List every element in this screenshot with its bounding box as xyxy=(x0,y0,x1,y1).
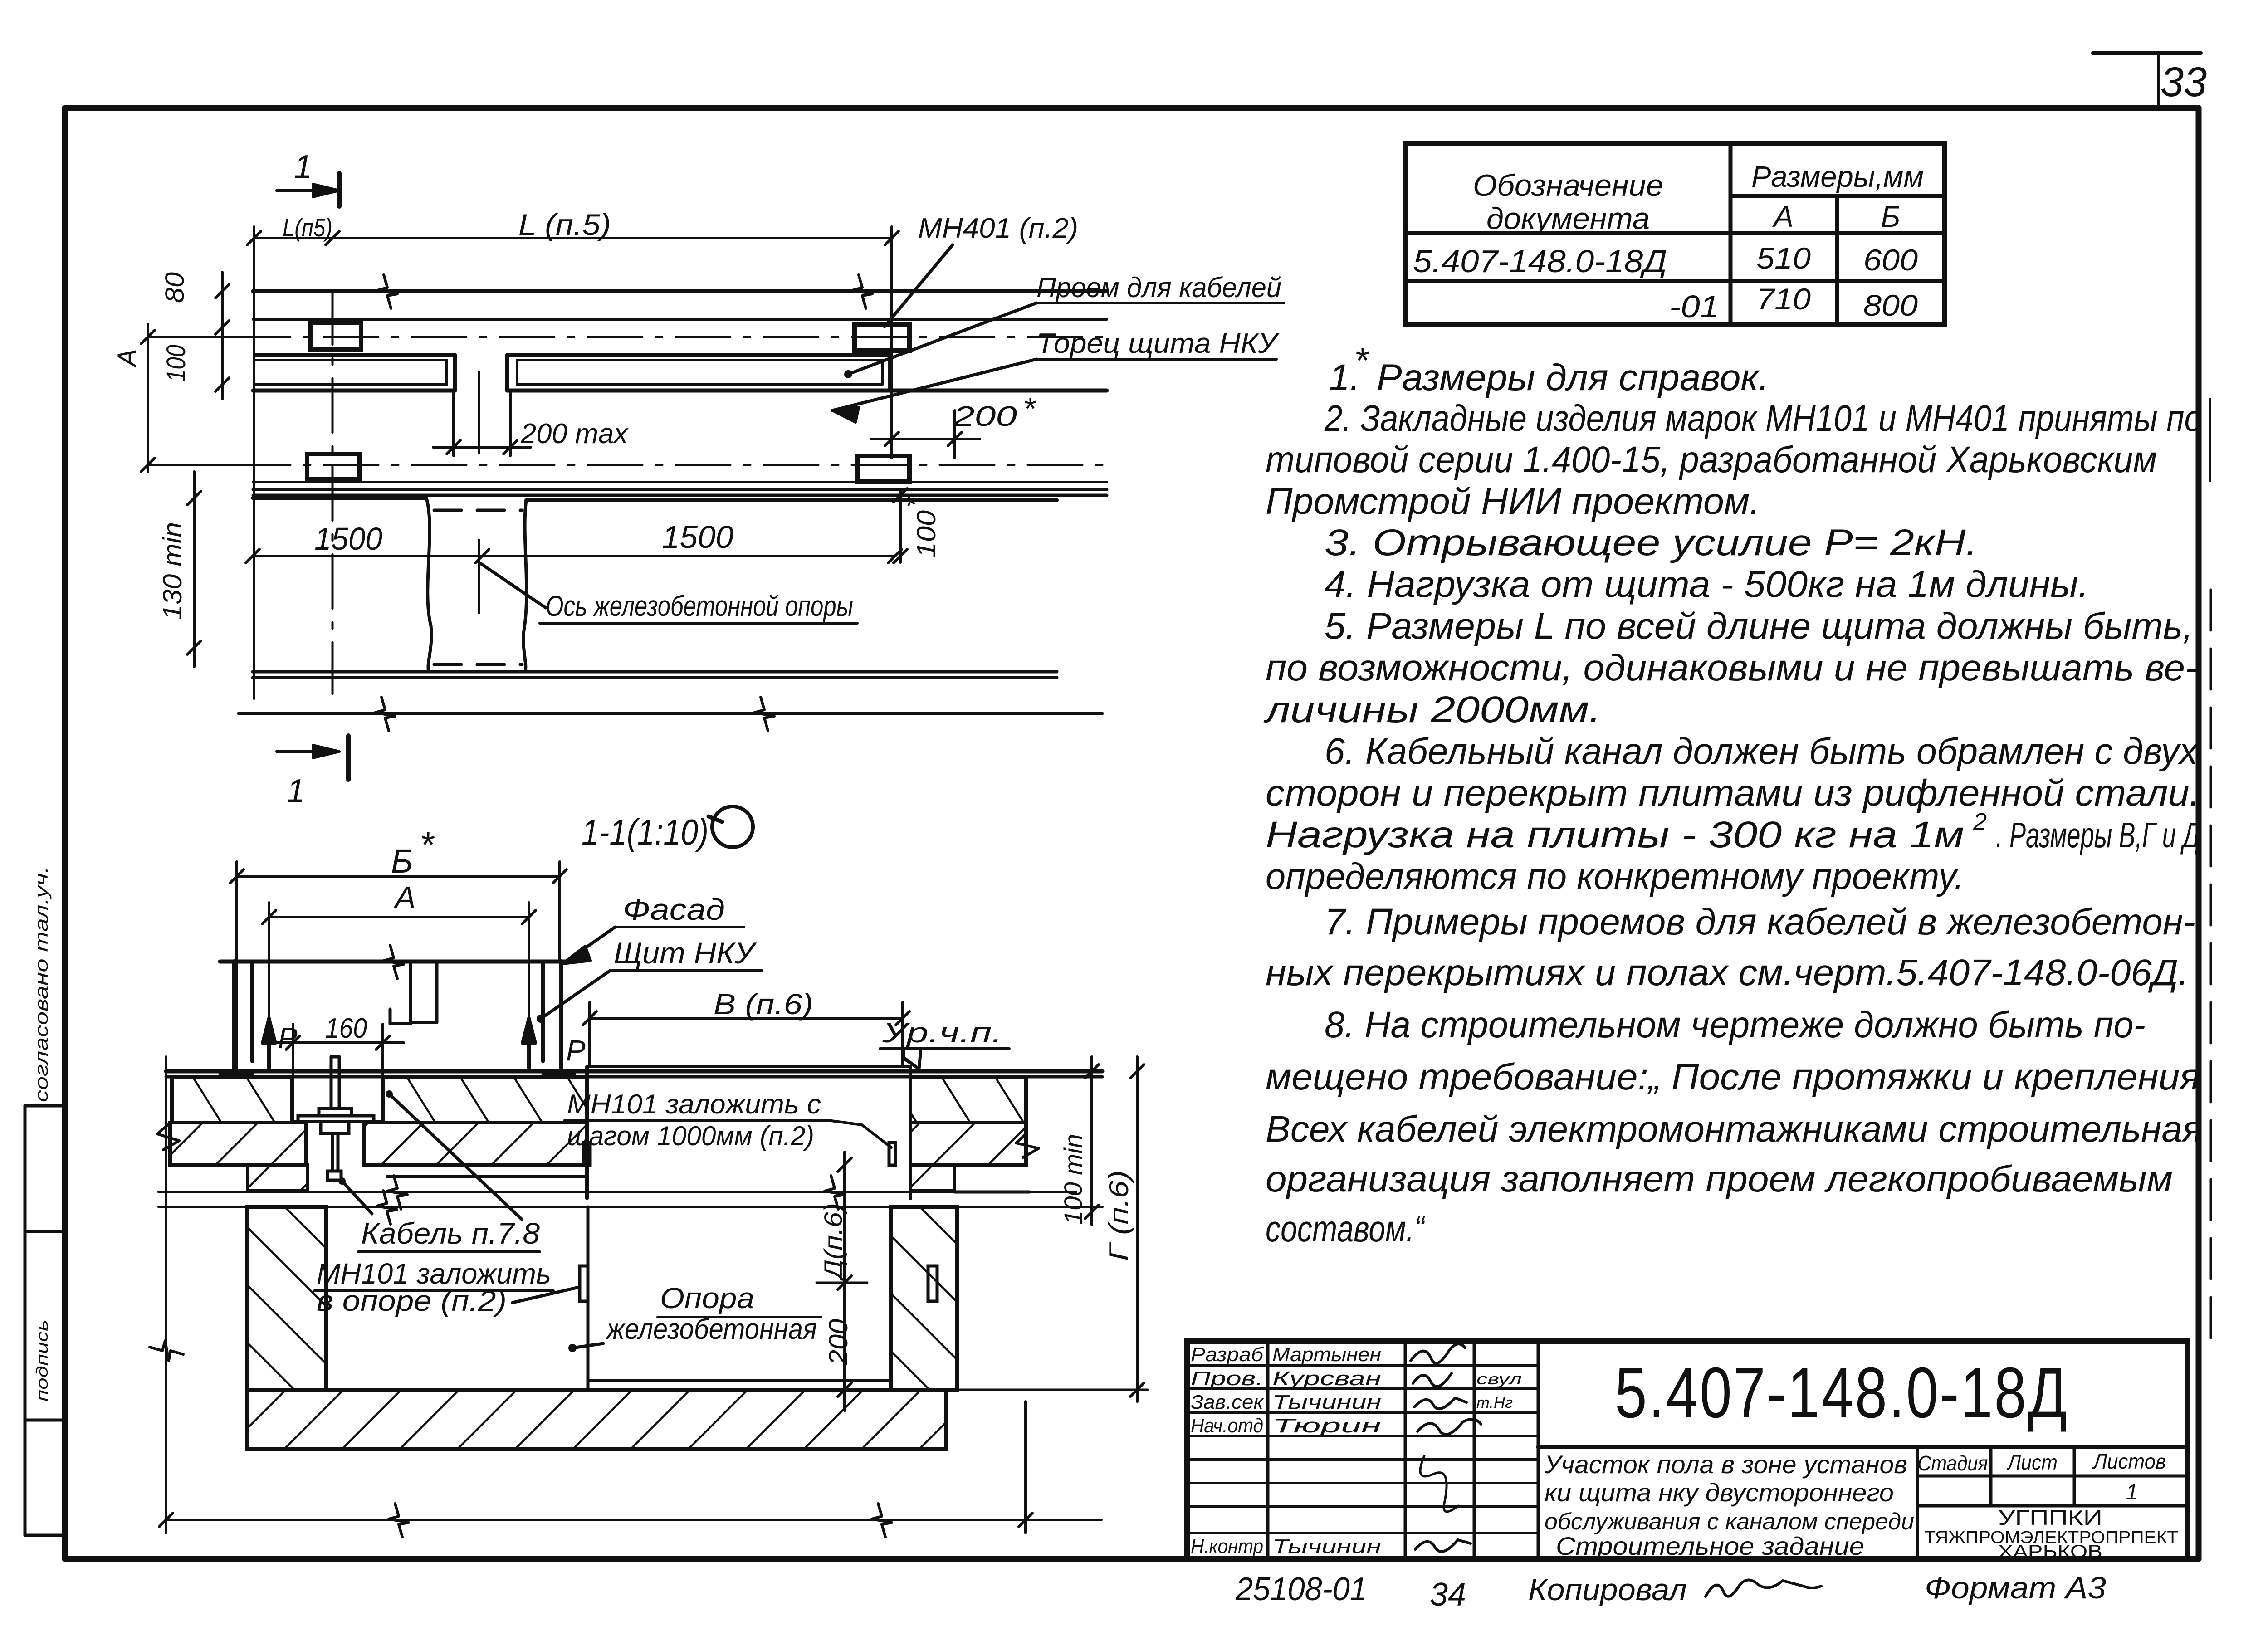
svg-text:ХАРЬКОВ: ХАРЬКОВ xyxy=(1998,1542,2102,1562)
plan: support band top edge right xyxy=(523,500,1057,672)
section: label Опора железобетонная xyxy=(568,1282,821,1352)
section: embedded plate on right wall face xyxy=(928,1266,937,1301)
section: slab bottom long line 1 xyxy=(159,1176,1076,1209)
svg-text:Листов: Листов xyxy=(2092,1450,2166,1473)
section: dimension B (п.6) xyxy=(583,988,909,1067)
svg-text:железобетонная: железобетонная xyxy=(605,1313,817,1345)
svg-text:Всех кабелей электромонтажни: Всех кабелей электромонтажниками строите… xyxy=(1266,1108,2202,1150)
svg-text:Размеры,мм: Размеры,мм xyxy=(1751,160,1924,193)
svg-text:Торец щита НКУ: Торец щита НКУ xyxy=(1036,328,1280,359)
svg-text:Г (п.6): Г (п.6) xyxy=(1104,1170,1134,1261)
plan: cable opening right segment xyxy=(507,355,1107,391)
section: left extension vertical xyxy=(150,1057,183,1533)
plan: embedded item lower right xyxy=(857,456,909,482)
svg-text:Тычинин: Тычинин xyxy=(1272,1535,1381,1558)
svg-text:200: 200 xyxy=(953,401,1017,432)
svg-text:100: 100 xyxy=(161,345,191,382)
section: label Щит НКУ with leader xyxy=(537,936,762,1023)
svg-text:шагом 1000мм (п.2): шагом 1000мм (п.2) xyxy=(567,1121,814,1151)
svg-text:1500: 1500 xyxy=(314,521,382,557)
footer annotations below frame xyxy=(1235,1571,2106,1613)
svg-text:Размеры для справок.: Размеры для справок. xyxy=(1377,357,1769,398)
svg-text:Б: Б xyxy=(391,842,413,880)
svg-text:1: 1 xyxy=(294,149,312,185)
svg-text:600: 600 xyxy=(1863,243,1918,277)
plan: label Торец щита НКУ with arrow leader xyxy=(832,328,1280,422)
svg-text:А: А xyxy=(1772,200,1794,233)
section: slab step extensions near channel xyxy=(248,1165,954,1191)
svg-text:2. Закладные изделия марок М: 2. Закладные изделия марок МН101 и МН401… xyxy=(1324,398,2202,439)
plan: lower centerline xyxy=(236,464,1107,466)
section: dimension Д(п.6) and 200 vertical xyxy=(816,1152,867,1411)
svg-text:мещено требование:„ После пр: мещено требование:„ После протяжки и кре… xyxy=(1266,1056,2200,1098)
plan: embedded item MH401 upper left xyxy=(310,322,361,349)
section: slab hatch layer segments xyxy=(170,1123,1026,1165)
svg-text:Фасад: Фасад xyxy=(623,893,725,926)
svg-text:по возможности, одинаковыми: по возможности, одинаковыми и не превыша… xyxy=(1266,647,2198,688)
svg-text:Опора: Опора xyxy=(660,1282,754,1314)
svg-text:200 mах: 200 mах xyxy=(520,418,629,449)
svg-text:обслуживания с каналом спереди: обслуживания с каналом спереди xyxy=(1545,1509,1914,1535)
section: slab bottom long line 2 xyxy=(159,1191,1102,1224)
plan: support band bottom double line xyxy=(253,672,1057,678)
left margin strip boxes xyxy=(25,1106,65,1535)
svg-text:8. На строительном чертеже: 8. На строительном чертеже должно быть п… xyxy=(1325,1004,2146,1045)
plan: support band top edge left xyxy=(253,498,431,672)
title block stage sheet columns xyxy=(1917,1447,2187,1559)
section: floor surface double line xyxy=(166,1067,1102,1077)
plan: section mark 1 bottom xyxy=(277,736,348,809)
svg-text:1-1(1:10): 1-1(1:10) xyxy=(582,812,709,852)
svg-text:800: 800 xyxy=(1863,288,1918,322)
plan: dimension 1500 1500 xyxy=(246,519,902,563)
title block signature table xyxy=(1187,1341,1538,1559)
svg-text:-01: -01 xyxy=(1669,289,1719,324)
svg-text:В (п.6): В (п.6) xyxy=(714,988,813,1021)
title block organization cell xyxy=(1924,1506,2178,1562)
plan: bottom slab edge line xyxy=(239,697,1102,731)
svg-text:. Размеры В,Г и Д: . Размеры В,Г и Д xyxy=(1996,815,2200,855)
svg-text:Курсван: Курсван xyxy=(1272,1367,1381,1390)
svg-text:А: А xyxy=(393,880,416,915)
svg-text:*: * xyxy=(1023,391,1036,426)
section: bottom overall dimension line xyxy=(159,1504,1101,1537)
section: load arrow P left xyxy=(262,1017,298,1068)
svg-text:Участок пола в зоне установ: Участок пола в зоне установ xyxy=(1544,1450,1907,1479)
svg-text:80: 80 xyxy=(160,272,190,303)
plan: top wall line 2 xyxy=(253,318,1107,321)
svg-text:Н.контр: Н.контр xyxy=(1191,1535,1263,1558)
svg-text:1: 1 xyxy=(2126,1480,2138,1504)
svg-text:согласовано тал.уч.: согласовано тал.уч. xyxy=(32,866,52,1102)
svg-text:Тюрин: Тюрин xyxy=(1272,1415,1381,1437)
scan edge artifact line xyxy=(2210,399,2211,1343)
svg-text:2: 2 xyxy=(1973,808,1987,835)
svg-text:Б: Б xyxy=(1881,200,1901,233)
svg-text:определяются по конкретному: определяются по конкретному проекту. xyxy=(1266,856,1964,897)
plan: cable opening left segment xyxy=(253,355,455,391)
svg-text:3. Отрывающее усилие Р= 2кН: 3. Отрывающее усилие Р= 2кН. xyxy=(1325,522,1978,563)
svg-text:5. Размеры L по всей длине: 5. Размеры L по всей длине щита должны б… xyxy=(1325,605,2193,647)
svg-text:130 min: 130 min xyxy=(158,522,187,620)
plan: dimension 200* right xyxy=(871,391,1036,458)
plan: section mark 1 top xyxy=(277,149,339,206)
plan: support hidden edges dashed xyxy=(434,510,522,664)
section: anchor bolt xyxy=(298,1057,374,1180)
svg-text:Стадия: Стадия xyxy=(1918,1451,1988,1475)
svg-text:100 min: 100 min xyxy=(1059,1134,1087,1225)
svg-text:организация заполняет проем: организация заполняет проем легкопробива… xyxy=(1266,1158,2173,1200)
svg-text:25108-01: 25108-01 xyxy=(1235,1571,1367,1607)
section: middle slab soffit line xyxy=(387,1175,587,1178)
plan: floor edge double line xyxy=(253,489,1107,495)
plan: label Проем для кабелей with leader xyxy=(844,272,1284,378)
section: embedded plate channel left xyxy=(584,1143,590,1165)
plan: dimension A vertical xyxy=(112,324,254,472)
plan: top wall line 1 xyxy=(253,275,1107,308)
section: dimension 160 xyxy=(272,1013,404,1075)
plan: dimension 80 vertical xyxy=(160,272,229,399)
svg-text:160: 160 xyxy=(325,1013,367,1044)
section: dimension 100min vertical right xyxy=(1059,1057,1099,1225)
plan: section line vertical dash-dot xyxy=(332,290,334,694)
title block signature rows text xyxy=(1191,1343,1522,1558)
section: embedded plate on support face xyxy=(580,1266,588,1301)
left margin rotated text xyxy=(32,866,52,1401)
section: dimension A xyxy=(262,880,536,1068)
svg-text:А: А xyxy=(112,349,142,368)
svg-text:1500: 1500 xyxy=(662,519,733,555)
svg-text:200: 200 xyxy=(824,1319,853,1366)
svg-text:ки щита нку двустороннего: ки щита нку двустороннего xyxy=(1545,1478,1894,1507)
svg-text:личины 2000мм.: личины 2000мм. xyxy=(1263,689,1601,730)
section: load arrow P right xyxy=(522,1017,586,1068)
svg-text:33: 33 xyxy=(2160,59,2207,105)
svg-text:1: 1 xyxy=(287,773,305,809)
svg-text:L (п.5): L (п.5) xyxy=(518,208,611,241)
svg-text:сторон и перекрыт плитами: сторон и перекрыт плитами из рифленной с… xyxy=(1266,772,2200,814)
svg-text:Проем для кабелей: Проем для кабелей xyxy=(1036,272,1281,303)
svg-text:документа: документа xyxy=(1486,201,1650,236)
svg-text:6. Кабельный канал должен б: 6. Кабельный канал должен быть обрамлен … xyxy=(1325,731,2199,772)
svg-text:Ось железобетонной опоры: Ось железобетонной опоры xyxy=(546,590,853,622)
page number box 33 xyxy=(2093,53,2207,109)
size table header Обозначение документа xyxy=(1473,168,1663,236)
section: anchor pocket outline xyxy=(292,1077,383,1164)
section: right ledge step xyxy=(954,1165,1030,1192)
svg-text:510: 510 xyxy=(1756,241,1811,275)
section: dimension Б* xyxy=(230,825,567,1075)
svg-text:Обозначение: Обозначение xyxy=(1473,168,1663,203)
svg-text:5.407-148.0-18Д: 5.407-148.0-18Д xyxy=(1413,244,1667,279)
svg-text:Щит НКУ: Щит НКУ xyxy=(614,936,757,970)
section: bottom slab hatched xyxy=(247,1390,946,1449)
svg-text:ных перекрытиях и полах см: ных перекрытиях и полах см.черт.5.407-14… xyxy=(1266,952,2189,993)
section: dimension Г (п.6) vertical right xyxy=(957,1057,1148,1401)
plan: label MH401 (п.2) with leader xyxy=(885,213,1078,327)
section: concrete support outline xyxy=(588,1207,891,1390)
notes text block xyxy=(1263,340,2202,1250)
svg-text:Мартынен: Мартынен xyxy=(1272,1343,1381,1366)
section: title 1-1(1:10) with circle xyxy=(582,806,753,852)
plan: dimension 200max xyxy=(433,391,629,456)
plan: line under lower items xyxy=(253,481,1107,483)
svg-text:МН101 залoжить с: МН101 залoжить с xyxy=(567,1089,821,1119)
section: panel (щит НКУ) outline xyxy=(220,945,574,1074)
section: embedded plate channel right xyxy=(889,1143,895,1165)
plan: upper centerline xyxy=(236,336,1107,338)
svg-text:100: 100 xyxy=(912,510,941,558)
section: channel side verticals xyxy=(587,1067,910,1198)
title block outer frame xyxy=(1187,1341,2187,1559)
svg-text:*: * xyxy=(420,825,435,865)
svg-text:4. Нагрузка от щита - 500кг: 4. Нагрузка от щита - 500кг на 1м длины. xyxy=(1325,564,2089,605)
section: label Ур.ч.п. with arrow xyxy=(880,1017,1009,1069)
plan: dimension L (п.5) xyxy=(247,208,899,698)
svg-text:Промстрой НИИ проектом.: Промстрой НИИ проектом. xyxy=(1266,481,1760,522)
title block description text xyxy=(1544,1450,1914,1560)
section: pit right wall hatched xyxy=(891,1207,957,1390)
svg-text:Зав.сек: Зав.сек xyxy=(1191,1391,1264,1413)
svg-text:7. Примеры проемов для кабе: 7. Примеры проемов для кабелей в железоб… xyxy=(1325,901,2195,942)
svg-text:Пров.: Пров. xyxy=(1191,1367,1263,1390)
section: pit floor line xyxy=(326,1388,891,1392)
svg-text:5.407-148.0-18Д: 5.407-148.0-18Д xyxy=(1615,1353,2068,1433)
plan: embedded item lower left xyxy=(307,454,360,479)
svg-text:*: * xyxy=(898,495,932,508)
size table row 2 xyxy=(1669,282,1918,324)
plan: support axis lower part xyxy=(478,540,480,613)
section: label МН101 заложить с шагом 1000мм xyxy=(565,1089,891,1151)
svg-text:Лист: Лист xyxy=(2006,1450,2058,1474)
svg-text:*: * xyxy=(1354,340,1369,381)
svg-text:типовой серии 1.400-15, разр: типовой серии 1.400-15, разработанной Ха… xyxy=(1266,439,2157,480)
section: screed hatch layer segments xyxy=(172,1077,1026,1123)
svg-text:свул: свул xyxy=(1476,1371,1522,1388)
size table frame xyxy=(1406,143,1945,325)
plan: dimension 100* right vertical xyxy=(894,488,941,563)
plan: dimension 100 vertical xyxy=(161,345,229,391)
svg-text:Строительное задание: Строительное задание xyxy=(1556,1532,1864,1560)
section: right extension vertical xyxy=(1024,1401,1027,1533)
svg-text:подпись: подпись xyxy=(33,1320,51,1401)
section: edge break marks xyxy=(157,1125,1039,1157)
svg-text:в опоре (п.2): в опоре (п.2) xyxy=(317,1284,507,1317)
plan: embedded item MH401 upper right xyxy=(855,325,909,351)
size table row 1 xyxy=(1413,241,1918,279)
section: label Кабель п.7.8 xyxy=(338,1090,540,1252)
svg-text:т.Нг: т.Нг xyxy=(1476,1394,1513,1411)
plan: dimension 130min vertical xyxy=(158,472,201,667)
section: panel middle notch xyxy=(390,962,437,1024)
title block doc number cell xyxy=(1538,1353,2187,1447)
svg-text:Копировал: Копировал xyxy=(1528,1572,1687,1607)
svg-text:Кабель п.7.8: Кабель п.7.8 xyxy=(361,1216,540,1250)
svg-text:МН401 (п.2): МН401 (п.2) xyxy=(918,213,1078,244)
title block signatures squiggles xyxy=(1411,1344,1481,1552)
svg-text:34: 34 xyxy=(1430,1577,1466,1613)
section: label Фасад with arrow leader xyxy=(562,893,744,964)
svg-text:Разраб: Разраб xyxy=(1191,1343,1264,1366)
svg-text:Д(п.6): Д(п.6) xyxy=(819,1203,847,1282)
section: pit left wall hatched xyxy=(247,1207,326,1390)
svg-text:составом.“: составом.“ xyxy=(1266,1208,1426,1250)
svg-text:Нагрузка на плиты - 300 кг н: Нагрузка на плиты - 300 кг на 1м xyxy=(1266,814,1964,855)
svg-text:710: 710 xyxy=(1756,282,1811,316)
plan: support axis upper part xyxy=(478,372,480,454)
svg-text:Тычинин: Тычинин xyxy=(1272,1391,1381,1413)
svg-text:Формат А3: Формат А3 xyxy=(1925,1571,2106,1605)
svg-text:Нач.отд: Нач.отд xyxy=(1191,1415,1263,1437)
plan: label Ось железобетонной опоры xyxy=(479,562,857,623)
section: label МН101 заложить в опоре xyxy=(314,1257,579,1317)
svg-text:Р: Р xyxy=(566,1034,586,1067)
svg-text:УГППКИ: УГППКИ xyxy=(1998,1506,2102,1529)
